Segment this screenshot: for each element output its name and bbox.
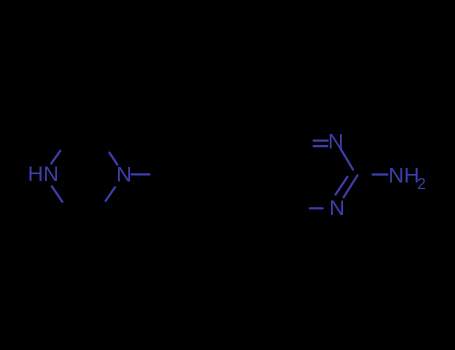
svg-text:N: N [328, 130, 344, 154]
svg-text:2: 2 [417, 176, 426, 193]
svg-text:NH: NH [388, 164, 419, 188]
svg-text:N: N [116, 162, 132, 186]
svg-text:N: N [329, 196, 345, 220]
svg-text:HN: HN [28, 162, 59, 186]
